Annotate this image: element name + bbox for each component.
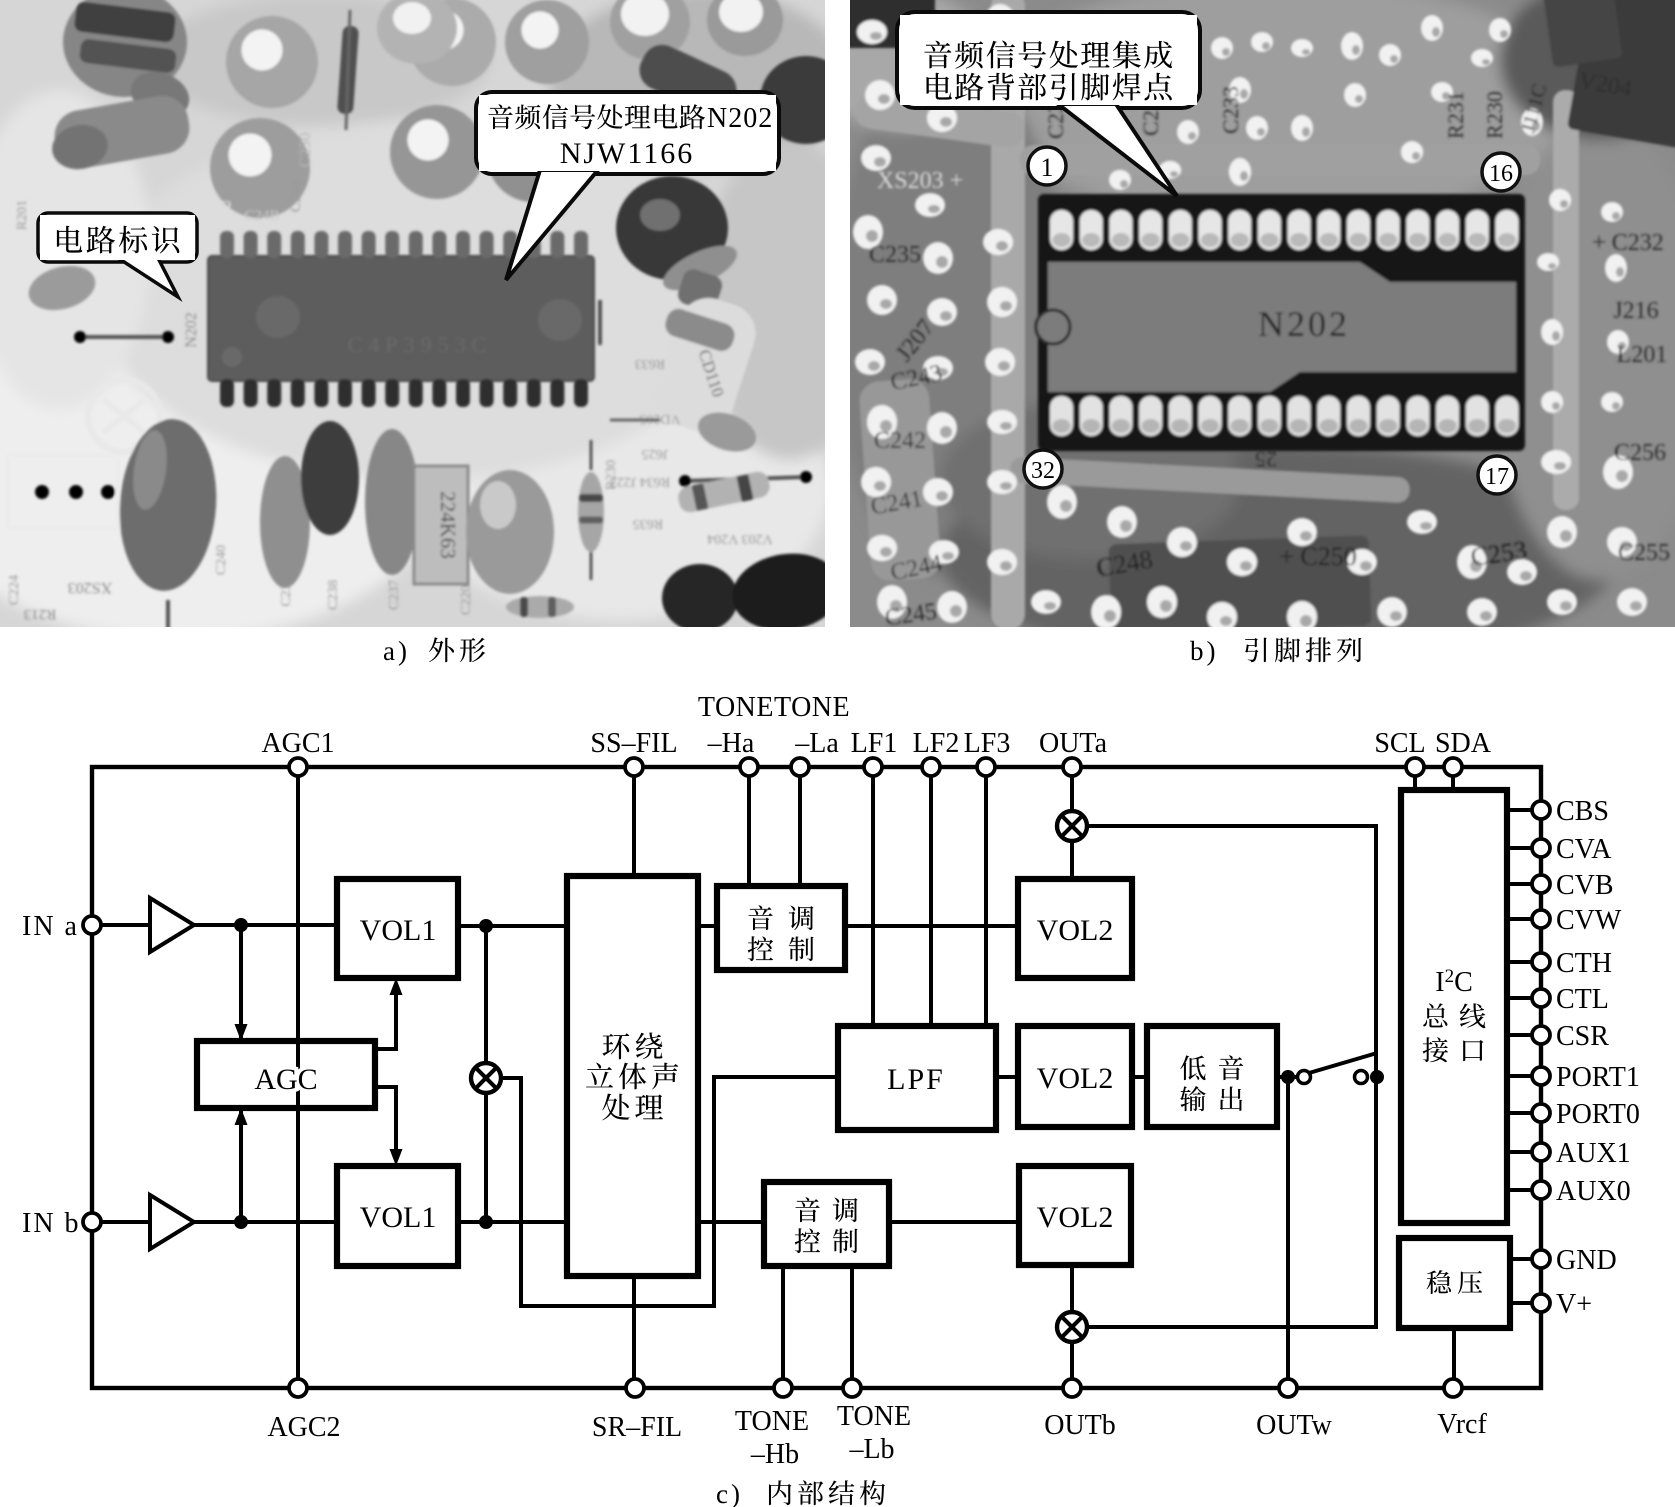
photo b: IC footprint black frame	[1038, 194, 1525, 451]
svg-text:SS–FIL: SS–FIL	[590, 728, 677, 759]
terminal V+	[1532, 1294, 1550, 1312]
wire regulator to Vrcf	[1452, 1328, 1456, 1388]
wire IN a to amplifier	[92, 923, 150, 927]
terminal LF1	[864, 758, 882, 776]
wire OUTw line	[1286, 1077, 1290, 1388]
terminal CSR	[1532, 1026, 1550, 1044]
wire GND stub	[1510, 1257, 1541, 1261]
photo a: jumper wires	[80, 335, 168, 339]
wire tone control b to VOL2b	[889, 1220, 1019, 1224]
photo a: bottom pill components	[114, 416, 222, 594]
junction dot switch left	[1281, 1070, 1295, 1084]
terminal AUX1	[1532, 1143, 1550, 1161]
svg-text:32: 32	[1031, 458, 1055, 484]
block VOL1b	[337, 1166, 458, 1266]
photo b: dark corner patches	[1567, 0, 1675, 149]
svg-text:CVB: CVB	[1556, 870, 1614, 901]
svg-text:VOL2: VOL2	[1037, 1201, 1114, 1234]
svg-text:SDA: SDA	[1435, 728, 1492, 759]
amplifier A2	[150, 1195, 194, 1249]
svg-text:OUTa: OUTa	[1039, 728, 1108, 759]
wire node to AGC input arrow up	[239, 1111, 243, 1222]
block VOL1a	[337, 879, 458, 978]
svg-text:R231: R231	[1443, 91, 1468, 139]
terminal SS-FIL	[625, 758, 643, 776]
svg-text:C237: C237	[387, 580, 402, 610]
terminal CTH	[1532, 953, 1550, 971]
block I2C right-edge pin stubs	[1507, 810, 1541, 1190]
svg-text:CTL: CTL	[1556, 984, 1609, 1015]
terminal SR-FIL	[626, 1379, 644, 1397]
wire TONE-La stub	[798, 767, 802, 886]
mixer M1 multiplier symbol	[471, 1063, 501, 1093]
wire VOL1b output to surround box	[458, 1220, 567, 1224]
svg-text:C255: C255	[1618, 540, 1670, 566]
svg-text:TONE: TONE	[837, 1401, 911, 1432]
svg-text:AGC: AGC	[254, 1063, 317, 1096]
terminal PORT1	[1532, 1067, 1550, 1085]
terminal LF3	[977, 758, 995, 776]
block surround stereo processing	[567, 876, 698, 1276]
photo b: pin-32 circled number	[1024, 450, 1062, 488]
photo a: CD110 capacitor cylinder	[675, 267, 724, 314]
mixer M3 multiplier symbol	[1057, 1312, 1087, 1342]
wire IN b to amplifier	[92, 1220, 150, 1224]
wire mixer M2 feed from subwoofer bus	[1086, 826, 1376, 1327]
terminal GND	[1532, 1250, 1550, 1268]
photo a: caps and cylinder top right	[610, 0, 690, 60]
svg-text:C250: C250	[297, 133, 314, 168]
wire VOL2m to bass output block	[1132, 1075, 1147, 1079]
photo b: pin-1 circled number	[1028, 147, 1066, 185]
photo a: bottom-left silk rectangle	[8, 455, 118, 528]
svg-text:CVW: CVW	[1556, 905, 1622, 936]
terminal Vrcf	[1444, 1379, 1462, 1397]
block tone control a	[717, 886, 845, 970]
svg-text:TONETONE: TONETONE	[698, 692, 850, 723]
svg-text:–Lb: –Lb	[848, 1434, 894, 1465]
terminal CTL	[1532, 989, 1550, 1007]
svg-text:N202: N202	[183, 312, 200, 348]
junction node after VOL1a	[479, 919, 493, 933]
wire amplifier A1 to VOL1a	[194, 923, 337, 927]
terminal OUTb	[1063, 1379, 1081, 1397]
photo a: IC mould marks	[256, 296, 300, 338]
wire SS-FIL stub	[632, 767, 636, 876]
wire LPF output to VOL2m	[996, 1075, 1018, 1079]
svg-text:N202: N202	[707, 103, 773, 134]
svg-text:R633: R633	[635, 356, 665, 371]
svg-text:J216: J216	[1613, 298, 1658, 324]
block VOL2a	[1018, 879, 1132, 978]
svg-text:17: 17	[1485, 464, 1509, 490]
terminal TONE-Hb	[774, 1379, 792, 1397]
svg-text:+ C232: + C232	[1592, 230, 1664, 256]
svg-text:25: 25	[375, 200, 395, 222]
svg-text:C224: C224	[7, 575, 22, 605]
svg-text:16: 16	[1489, 161, 1513, 187]
svg-text:PORT0: PORT0	[1556, 1099, 1640, 1130]
junction node on IN b path	[479, 1215, 493, 1229]
terminal IN b	[83, 1213, 101, 1231]
svg-text:32: 32	[212, 197, 232, 219]
svg-text:XS203: XS203	[68, 579, 112, 596]
svg-text:–La: –La	[794, 728, 839, 759]
svg-text:J625: J625	[642, 446, 668, 461]
svg-text:OUTb: OUTb	[1044, 1410, 1116, 1441]
svg-text:VOL2: VOL2	[1037, 914, 1114, 947]
svg-text:16: 16	[570, 434, 586, 451]
block VOL2b	[1019, 1166, 1131, 1265]
svg-text:V+: V+	[1556, 1289, 1592, 1320]
photo b: scattered solder joints	[853, 4, 1647, 633]
svg-text:C233: C233	[1218, 86, 1243, 134]
terminal OUTa	[1063, 758, 1081, 776]
svg-text:TONE: TONE	[735, 1406, 809, 1437]
svg-text:C256: C256	[1614, 440, 1666, 466]
svg-text:IN b: IN b	[22, 1208, 81, 1239]
svg-text:C248: C248	[288, 180, 304, 213]
terminal CVW	[1532, 910, 1550, 928]
wire SR-FIL stub	[632, 1276, 636, 1388]
terminal CVA	[1532, 839, 1550, 857]
terminal TONE-Lb	[843, 1379, 861, 1397]
junction node on IN a line	[234, 918, 248, 932]
wire mixer M2 to VOL2a	[1070, 840, 1074, 879]
wire bass output to switch	[1277, 1075, 1297, 1079]
wire TONE-Lb stub	[850, 1266, 854, 1388]
photo a: 224K63 film cap	[414, 466, 468, 584]
terminal OUTw	[1279, 1379, 1297, 1397]
wire VOL1a output to surround box	[458, 924, 567, 928]
svg-text:25: 25	[1255, 447, 1277, 472]
photo a: callout bubble - N202 NJW1166	[476, 92, 779, 174]
svg-text:VOL1: VOL1	[360, 1201, 437, 1234]
svg-text:VOL1: VOL1	[360, 914, 437, 947]
block AGC	[197, 1041, 375, 1108]
svg-text:R635: R635	[633, 516, 663, 531]
svg-text:AGC1: AGC1	[261, 728, 334, 759]
svg-text:CTH: CTH	[1556, 948, 1612, 979]
svg-text:R213: R213	[24, 606, 57, 622]
junction node on IN b line	[234, 1215, 248, 1229]
mixer M2 multiplier symbol	[1057, 811, 1087, 841]
svg-text:SCL: SCL	[1374, 728, 1425, 759]
svg-text:R230: R230	[604, 460, 619, 490]
terminal LF2	[922, 758, 940, 776]
wire SCL stub	[1413, 767, 1417, 790]
svg-text:1: 1	[1041, 153, 1054, 182]
wire mixer M1 wrap-around to LPF input	[500, 1077, 838, 1306]
photo b: solder pads bottom row	[1050, 396, 1519, 436]
wire AGC control to VOL1a	[375, 983, 396, 1049]
wire node down to mixer	[484, 926, 488, 1064]
wire V+ stub	[1510, 1301, 1541, 1305]
wire surround to tone control a	[698, 924, 717, 928]
svg-text:L201: L201	[1617, 342, 1668, 368]
svg-text:AUX1: AUX1	[1556, 1138, 1631, 1169]
terminal AUX0	[1532, 1181, 1550, 1199]
photo a: PCB component-side photograph	[0, 0, 880, 655]
photo a: grey pill capacitor left	[50, 92, 193, 173]
wire LF2 to LPF	[929, 767, 933, 1026]
photo a: white-top caps top middle	[377, 0, 457, 64]
svg-text:CSR: CSR	[1556, 1021, 1609, 1052]
block bass output	[1147, 1026, 1277, 1127]
photo a: vertical resistor	[337, 26, 359, 115]
svg-text:XS203 +: XS203 +	[877, 168, 963, 194]
svg-text:C4P3953C: C4P3953C	[348, 332, 493, 357]
svg-text:–Ha: –Ha	[707, 728, 755, 759]
junction dot switch right	[1370, 1070, 1384, 1084]
photo a: dark cap right	[616, 176, 728, 280]
svg-text:b): b)	[1190, 636, 1219, 666]
wire LF1 to LPF	[871, 767, 875, 1026]
photo b: callout bubble - solder pads note	[897, 12, 1200, 108]
terminal TONE-Ha	[740, 758, 758, 776]
photo b: pin-17 circled number	[1478, 456, 1516, 494]
wire OUTa to mixer M2	[1070, 767, 1074, 812]
switch S1 right contact	[1355, 1071, 1368, 1084]
photo a: IC pins bottom row	[220, 379, 588, 407]
IC boundary rectangle	[92, 767, 1541, 1388]
svg-text:VOL2: VOL2	[1037, 1062, 1114, 1095]
svg-text:AGC2: AGC2	[267, 1412, 340, 1443]
svg-text:C242: C242	[874, 428, 926, 454]
svg-text:PORT1: PORT1	[1556, 1062, 1640, 1093]
photo a: IC chip N202 body	[208, 256, 594, 381]
photo a: callout bubble - circuit marking	[38, 213, 197, 262]
svg-text:GND: GND	[1556, 1245, 1617, 1276]
block LPF	[838, 1026, 996, 1130]
svg-text:V203 V204: V203 V204	[707, 531, 772, 546]
svg-text:c): c)	[716, 1479, 743, 1507]
photo b: IC grey body region	[1048, 262, 1516, 392]
wire mixer M1 down to IN b path	[484, 1092, 488, 1222]
svg-text:R230: R230	[1482, 91, 1507, 139]
svg-text:+ C250: + C250	[1279, 542, 1357, 571]
svg-text:N202: N202	[1258, 304, 1350, 344]
wire VOL2b to mixer M3	[1070, 1265, 1074, 1313]
photo a: IC pins top row	[220, 231, 588, 258]
terminal PORT0	[1532, 1104, 1550, 1122]
switch S1 left contact	[1298, 1071, 1311, 1084]
svg-text:CBS: CBS	[1556, 796, 1609, 827]
svg-text:I2C: I2C	[1435, 966, 1473, 998]
photo a: capacitor 1000J top-left	[63, 0, 187, 97]
svg-text:AUX0: AUX0	[1556, 1176, 1631, 1207]
svg-text:LPF: LPF	[887, 1063, 945, 1096]
svg-text:C238: C238	[326, 580, 341, 610]
wire mixer M3 to OUTb	[1070, 1341, 1074, 1388]
svg-text:CVA: CVA	[1556, 834, 1612, 865]
block VOL2m	[1018, 1026, 1132, 1127]
wire AGC control to VOL1b	[375, 1087, 396, 1161]
wire amplifier A2 to VOL1b	[194, 1220, 337, 1224]
photo a: small cap below	[24, 259, 101, 317]
svg-text:224K63: 224K63	[436, 491, 460, 559]
svg-text:–Hb: –Hb	[750, 1439, 799, 1470]
photo a: tilted resistor bottom right	[676, 470, 771, 515]
block tone control b	[764, 1182, 889, 1266]
terminal CBS	[1532, 801, 1550, 819]
terminal TONE-La	[791, 758, 809, 776]
photo a: dark transistors bottom right	[662, 564, 738, 632]
terminal SDA	[1444, 758, 1462, 776]
amplifier A1	[150, 898, 194, 952]
photo b: solder pads top row	[1050, 210, 1519, 250]
svg-text:LF1: LF1	[851, 728, 898, 759]
photo a: striped resistor bottom	[578, 472, 604, 552]
svg-text:LF3: LF3	[964, 728, 1011, 759]
terminal SCL	[1406, 758, 1424, 776]
wire node to AGC input arrow	[239, 925, 243, 1038]
svg-text:a): a)	[383, 636, 410, 666]
photo b: pin-16 circled number	[1482, 153, 1520, 191]
terminal IN a	[83, 916, 101, 934]
block voltage regulator	[1399, 1238, 1510, 1328]
svg-text:Vrcf: Vrcf	[1437, 1409, 1487, 1440]
svg-text:C235: C235	[869, 242, 921, 268]
block I2C bus interface	[1401, 790, 1507, 1223]
svg-text:C220: C220	[459, 585, 474, 615]
photo b: light trace lanes	[991, 0, 1025, 630]
svg-text:C24B: C24B	[244, 208, 279, 224]
wire SDA stub	[1451, 767, 1455, 790]
svg-text:IN a: IN a	[22, 911, 79, 942]
wire LF3 to LPF	[984, 767, 988, 1026]
svg-text:R201: R201	[15, 200, 30, 230]
terminal AGC1	[289, 758, 307, 776]
wire TONE-Hb stub	[781, 1266, 785, 1388]
svg-text:OUTw: OUTw	[1256, 1410, 1333, 1441]
terminal AGC2	[289, 1379, 307, 1397]
photo b: PCB solder-side photograph	[810, 0, 1675, 665]
wire surround to tone control b	[698, 1220, 764, 1224]
terminal CVB	[1532, 875, 1550, 893]
svg-text:SR–FIL: SR–FIL	[592, 1412, 682, 1443]
switch S1 blade	[1309, 1053, 1377, 1073]
svg-text:NJW1166: NJW1166	[560, 137, 695, 170]
svg-text:C240: C240	[214, 545, 229, 575]
wire AGC1 vertical AGC1-AGC2	[296, 767, 300, 1388]
photo a: electrolytic caps cluster	[226, 16, 318, 108]
wire TONE-Ha stub	[747, 767, 751, 886]
svg-text:LF2: LF2	[913, 728, 960, 759]
photo a: white ring	[88, 380, 160, 452]
wire tone control a to VOL2a	[845, 924, 1018, 928]
photo a: big pill bottom	[466, 470, 554, 594]
